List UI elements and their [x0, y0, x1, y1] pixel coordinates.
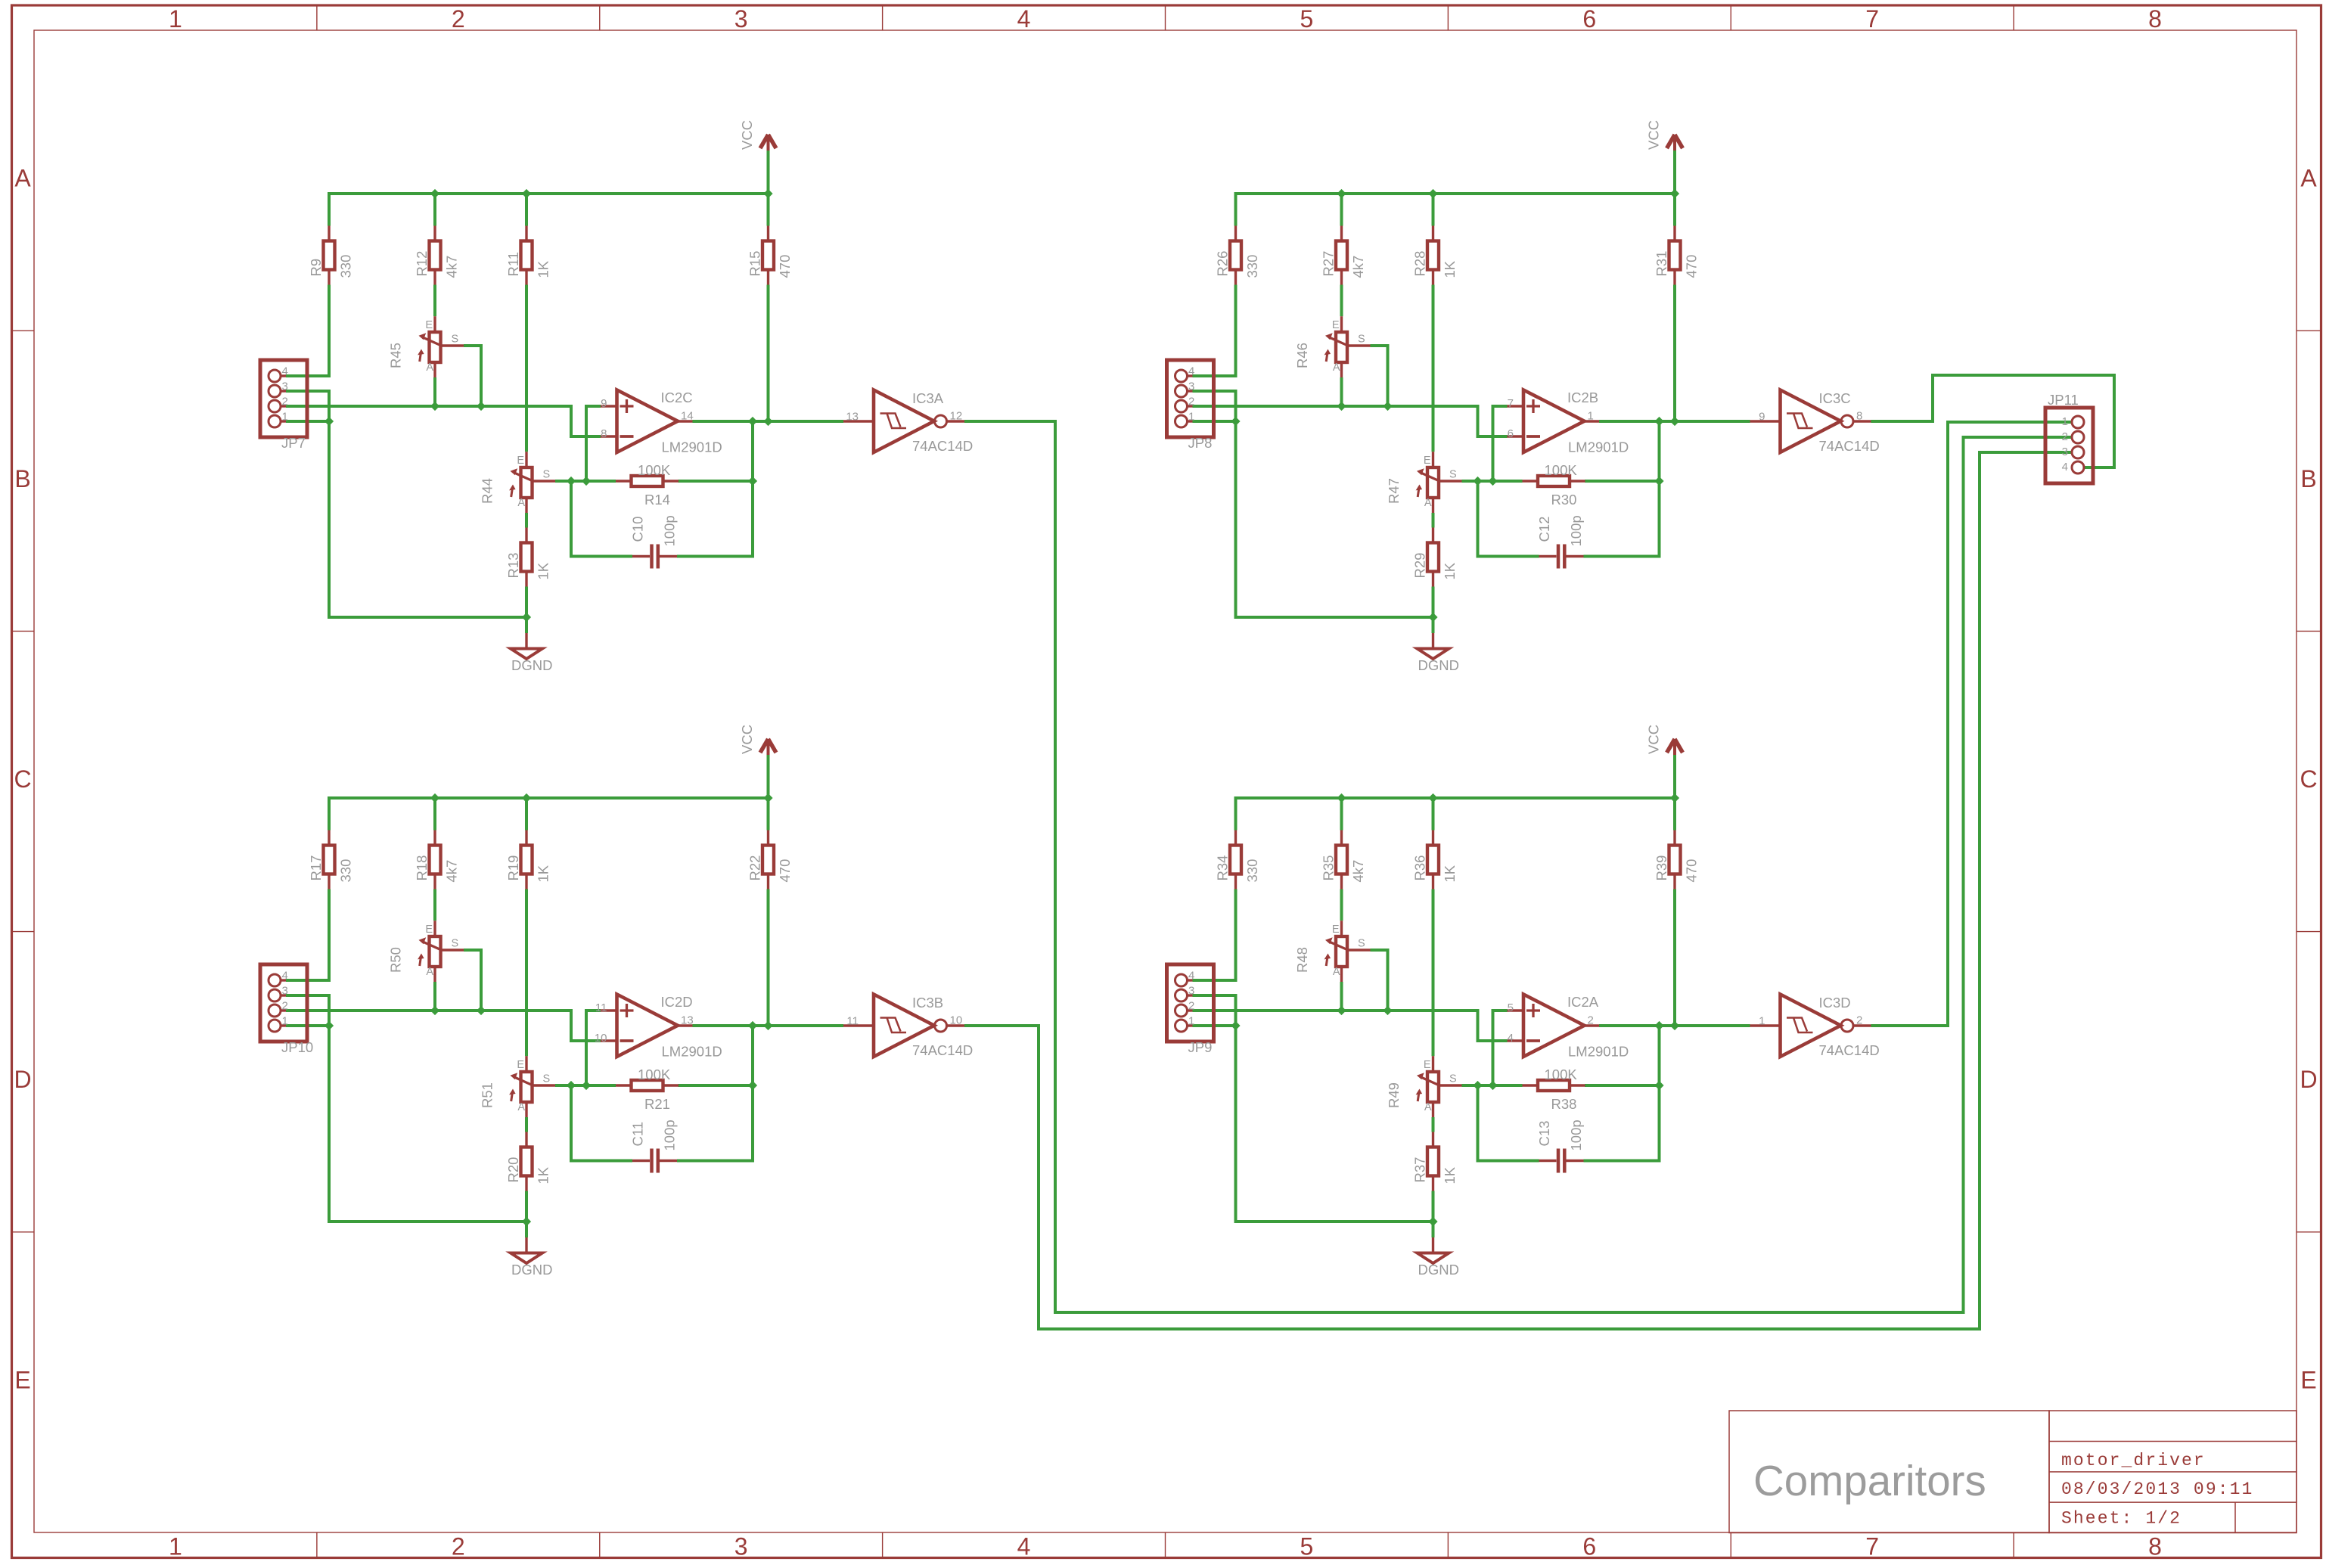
svg-text:8: 8 — [601, 427, 607, 440]
svg-text:R31: R31 — [1654, 251, 1669, 277]
svg-text:IC3B: IC3B — [912, 995, 943, 1011]
svg-text:R13: R13 — [505, 553, 521, 579]
svg-text:5: 5 — [1300, 5, 1314, 33]
svg-text:A: A — [1333, 362, 1340, 374]
svg-text:R19: R19 — [505, 855, 521, 881]
svg-text:10: 10 — [950, 1014, 963, 1027]
svg-text:6: 6 — [1582, 1533, 1596, 1560]
svg-text:A: A — [1333, 966, 1340, 978]
svg-text:1K: 1K — [1442, 260, 1458, 278]
svg-text:1: 1 — [282, 411, 288, 424]
svg-text:E: E — [1332, 924, 1340, 936]
svg-text:DGND: DGND — [1418, 657, 1459, 673]
svg-text:4: 4 — [1017, 5, 1031, 33]
svg-text:12: 12 — [950, 410, 963, 423]
svg-text:4k7: 4k7 — [444, 256, 460, 278]
svg-text:100K: 100K — [638, 1067, 671, 1082]
svg-text:3: 3 — [1188, 985, 1194, 998]
svg-text:A: A — [1424, 1101, 1432, 1113]
svg-text:R39: R39 — [1654, 855, 1669, 881]
svg-text:JP9: JP9 — [1188, 1039, 1213, 1055]
svg-text:4: 4 — [282, 970, 288, 983]
svg-text:IC2C: IC2C — [661, 390, 693, 405]
svg-text:1: 1 — [169, 5, 182, 33]
svg-text:330: 330 — [338, 255, 354, 278]
svg-text:470: 470 — [1684, 859, 1700, 883]
svg-text:8: 8 — [2148, 5, 2162, 33]
svg-text:A: A — [14, 165, 31, 192]
svg-text:2: 2 — [282, 396, 288, 408]
svg-text:7: 7 — [1508, 397, 1514, 410]
svg-text:2: 2 — [1188, 396, 1194, 408]
svg-text:IC3C: IC3C — [1819, 390, 1851, 406]
svg-text:100p: 100p — [662, 1119, 678, 1150]
svg-text:8: 8 — [1856, 410, 1862, 423]
svg-text:6: 6 — [1508, 427, 1514, 440]
svg-text:IC3A: IC3A — [912, 390, 944, 406]
svg-text:100p: 100p — [1568, 1119, 1584, 1150]
svg-text:R47: R47 — [1386, 478, 1402, 504]
svg-text:R28: R28 — [1412, 251, 1428, 277]
svg-text:E: E — [2300, 1366, 2316, 1393]
svg-text:1: 1 — [169, 1533, 182, 1560]
svg-text:C: C — [2300, 765, 2317, 793]
svg-text:R12: R12 — [414, 251, 430, 277]
svg-text:D: D — [14, 1066, 31, 1093]
svg-text:A: A — [426, 966, 433, 978]
svg-text:1K: 1K — [1442, 562, 1458, 579]
svg-text:R14: R14 — [644, 492, 670, 508]
svg-text:330: 330 — [1244, 255, 1260, 278]
svg-text:100p: 100p — [1568, 515, 1584, 546]
svg-text:1K: 1K — [1442, 865, 1458, 882]
svg-text:470: 470 — [777, 859, 793, 883]
svg-text:R46: R46 — [1294, 343, 1310, 368]
svg-text:E: E — [1424, 455, 1431, 467]
svg-text:R37: R37 — [1412, 1157, 1428, 1183]
svg-text:R38: R38 — [1551, 1096, 1577, 1112]
svg-text:R49: R49 — [1386, 1082, 1402, 1108]
svg-text:74AC14D: 74AC14D — [912, 438, 973, 454]
svg-text:470: 470 — [1684, 255, 1700, 278]
svg-text:A: A — [426, 362, 433, 374]
svg-text:2: 2 — [452, 1533, 465, 1560]
svg-text:3: 3 — [1188, 380, 1194, 393]
svg-text:S: S — [1358, 938, 1365, 950]
svg-text:A: A — [2300, 165, 2317, 192]
svg-text:R27: R27 — [1321, 251, 1337, 277]
svg-text:VCC: VCC — [739, 725, 755, 754]
svg-text:VCC: VCC — [739, 120, 755, 150]
svg-text:4: 4 — [1017, 1533, 1031, 1560]
svg-text:S: S — [543, 1073, 551, 1085]
svg-text:S: S — [543, 469, 551, 481]
svg-text:1K: 1K — [536, 865, 551, 882]
svg-text:R11: R11 — [505, 252, 521, 277]
svg-text:100K: 100K — [1545, 462, 1578, 478]
svg-text:IC2B: IC2B — [1567, 390, 1598, 405]
svg-text:5: 5 — [1300, 1533, 1314, 1560]
svg-text:3: 3 — [734, 5, 748, 33]
svg-text:E: E — [425, 319, 433, 331]
svg-text:JP10: JP10 — [281, 1039, 313, 1055]
svg-text:Sheet: 1/2: Sheet: 1/2 — [2061, 1509, 2182, 1529]
svg-text:2: 2 — [1188, 1000, 1194, 1013]
svg-text:1K: 1K — [536, 260, 551, 278]
svg-text:R36: R36 — [1412, 855, 1428, 881]
svg-text:R20: R20 — [505, 1157, 521, 1183]
svg-text:2: 2 — [2062, 430, 2068, 443]
svg-text:VCC: VCC — [1646, 725, 1662, 754]
svg-text:A: A — [1424, 497, 1432, 509]
svg-text:R9: R9 — [308, 259, 324, 277]
svg-text:R15: R15 — [747, 251, 763, 277]
svg-text:1: 1 — [1759, 1015, 1765, 1028]
svg-text:R30: R30 — [1551, 492, 1577, 508]
svg-text:C12: C12 — [1536, 517, 1552, 542]
svg-text:470: 470 — [777, 255, 793, 278]
svg-text:S: S — [452, 938, 459, 950]
svg-text:R18: R18 — [414, 855, 430, 881]
svg-text:LM2901D: LM2901D — [662, 439, 722, 455]
svg-text:R35: R35 — [1321, 855, 1337, 881]
svg-text:B: B — [2300, 465, 2316, 492]
svg-text:74AC14D: 74AC14D — [1819, 1042, 1880, 1058]
svg-text:08/03/2013 09:11: 08/03/2013 09:11 — [2061, 1480, 2253, 1499]
svg-text:3: 3 — [282, 985, 288, 998]
svg-text:LM2901D: LM2901D — [662, 1044, 722, 1060]
svg-text:C11: C11 — [630, 1122, 646, 1147]
svg-text:4k7: 4k7 — [444, 860, 460, 883]
svg-text:DGND: DGND — [1418, 1262, 1459, 1278]
svg-text:DGND: DGND — [511, 657, 552, 673]
svg-text:IC3D: IC3D — [1819, 995, 1851, 1011]
svg-text:R48: R48 — [1294, 947, 1310, 973]
svg-text:7: 7 — [1865, 1533, 1879, 1560]
svg-text:JP8: JP8 — [1188, 435, 1213, 451]
svg-text:1: 1 — [1588, 410, 1594, 423]
svg-text:100K: 100K — [638, 462, 671, 478]
svg-text:R21: R21 — [644, 1096, 670, 1112]
svg-text:4: 4 — [1508, 1032, 1514, 1045]
svg-text:1K: 1K — [536, 562, 551, 579]
svg-text:E: E — [1332, 319, 1340, 331]
svg-text:S: S — [1449, 469, 1457, 481]
svg-text:R22: R22 — [747, 855, 763, 881]
svg-text:14: 14 — [681, 410, 694, 423]
svg-text:DGND: DGND — [511, 1262, 552, 1278]
svg-text:100p: 100p — [662, 515, 678, 546]
svg-text:A: A — [517, 1101, 525, 1113]
svg-text:1K: 1K — [536, 1166, 551, 1184]
svg-text:74AC14D: 74AC14D — [912, 1042, 973, 1058]
svg-text:11: 11 — [846, 1015, 859, 1028]
svg-text:IC2A: IC2A — [1567, 994, 1599, 1010]
svg-text:R51: R51 — [480, 1082, 495, 1108]
svg-text:1: 1 — [282, 1015, 288, 1028]
svg-text:R17: R17 — [308, 855, 324, 881]
svg-text:S: S — [1358, 334, 1365, 346]
svg-text:100K: 100K — [1545, 1067, 1578, 1082]
svg-text:13: 13 — [681, 1014, 694, 1027]
svg-text:1K: 1K — [1442, 1166, 1458, 1184]
svg-text:6: 6 — [1582, 5, 1596, 33]
svg-text:E: E — [1424, 1059, 1431, 1071]
svg-text:4: 4 — [282, 365, 288, 378]
svg-text:5: 5 — [1508, 1001, 1514, 1014]
svg-text:R34: R34 — [1215, 855, 1231, 881]
svg-text:VCC: VCC — [1646, 120, 1662, 150]
svg-text:9: 9 — [601, 397, 607, 410]
svg-text:2: 2 — [1856, 1014, 1862, 1027]
svg-text:13: 13 — [846, 411, 859, 424]
svg-text:LM2901D: LM2901D — [1568, 439, 1629, 455]
svg-text:C13: C13 — [1536, 1121, 1552, 1147]
svg-text:330: 330 — [1244, 859, 1260, 883]
svg-text:8: 8 — [2148, 1533, 2162, 1560]
svg-text:motor_driver: motor_driver — [2061, 1451, 2206, 1470]
svg-text:4: 4 — [1188, 970, 1194, 983]
svg-text:1: 1 — [1188, 1015, 1194, 1028]
svg-text:E: E — [14, 1366, 30, 1393]
svg-text:R29: R29 — [1412, 553, 1428, 579]
svg-text:JP7: JP7 — [281, 435, 306, 451]
svg-text:Comparitors: Comparitors — [1753, 1457, 1986, 1504]
svg-text:2: 2 — [452, 5, 465, 33]
svg-text:9: 9 — [1759, 411, 1765, 424]
svg-text:A: A — [517, 497, 525, 509]
svg-text:C: C — [14, 765, 31, 793]
svg-text:330: 330 — [338, 859, 354, 883]
svg-text:4: 4 — [2062, 461, 2068, 474]
svg-text:2: 2 — [1588, 1014, 1594, 1027]
svg-text:74AC14D: 74AC14D — [1819, 438, 1880, 454]
svg-text:7: 7 — [1865, 5, 1879, 33]
svg-text:R45: R45 — [388, 343, 404, 368]
svg-text:LM2901D: LM2901D — [1568, 1044, 1629, 1060]
svg-text:2: 2 — [282, 1000, 288, 1013]
svg-text:3: 3 — [734, 1533, 748, 1560]
svg-text:B: B — [14, 465, 30, 492]
svg-text:R26: R26 — [1215, 251, 1231, 277]
svg-text:1: 1 — [2062, 415, 2068, 428]
svg-text:R44: R44 — [480, 478, 495, 504]
svg-text:E: E — [425, 924, 433, 936]
svg-text:S: S — [452, 334, 459, 346]
svg-text:3: 3 — [2062, 446, 2068, 458]
svg-text:4: 4 — [1188, 365, 1194, 378]
svg-text:IC2D: IC2D — [661, 994, 693, 1010]
svg-text:R50: R50 — [388, 947, 404, 973]
svg-text:3: 3 — [282, 380, 288, 393]
svg-text:S: S — [1449, 1073, 1457, 1085]
svg-text:E: E — [517, 1059, 524, 1071]
svg-text:JP11: JP11 — [2048, 392, 2079, 408]
svg-text:4k7: 4k7 — [1350, 256, 1366, 278]
svg-text:1: 1 — [1188, 411, 1194, 424]
svg-text:D: D — [2300, 1066, 2317, 1093]
svg-text:C10: C10 — [630, 517, 646, 542]
svg-text:4k7: 4k7 — [1350, 860, 1366, 883]
svg-text:10: 10 — [595, 1032, 607, 1045]
svg-text:11: 11 — [595, 1001, 607, 1014]
svg-text:E: E — [517, 455, 524, 467]
